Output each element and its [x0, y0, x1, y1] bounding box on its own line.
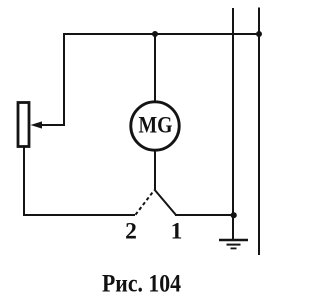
motor-generator MG circle	[131, 102, 179, 150]
wire from MG machine down to switch apex	[154, 149, 156, 191]
wire left vertical from top bus down to wiper level	[63, 33, 65, 126]
wire switch dashed throw to contact 2	[136, 190, 155, 215]
wire middle vertical rail (top to ground junction)	[232, 8, 234, 215]
node junction dot: MG branch on top bus	[152, 31, 158, 37]
svg-text:Рис. 104: Рис. 104	[102, 268, 181, 297]
rheostat wiper arrowhead	[31, 121, 43, 128]
wire from rheostat bottom down and across to contact 2	[24, 147, 135, 216]
wire switch solid blade to contact 1	[155, 190, 176, 215]
wire from top bus down to MG machine	[154, 34, 156, 103]
wire ground stem	[232, 215, 234, 240]
node junction dot: top bus on right rail	[256, 31, 262, 37]
svg-text:1: 1	[171, 219, 183, 245]
ground	[219, 240, 248, 248]
svg-text:2: 2	[125, 219, 137, 245]
wire bottom horizontal from contact 1 to ground rail	[175, 214, 234, 216]
svg-text:MG: MG	[139, 113, 173, 138]
resistor rheostat body	[18, 103, 29, 147]
wire wiper arm horizontal toward rheostat	[40, 124, 65, 126]
wire right vertical rail	[258, 8, 260, 256]
wire top horizontal bus	[63, 33, 259, 35]
node junction dot: contact-1 lead on ground rail	[231, 212, 237, 218]
